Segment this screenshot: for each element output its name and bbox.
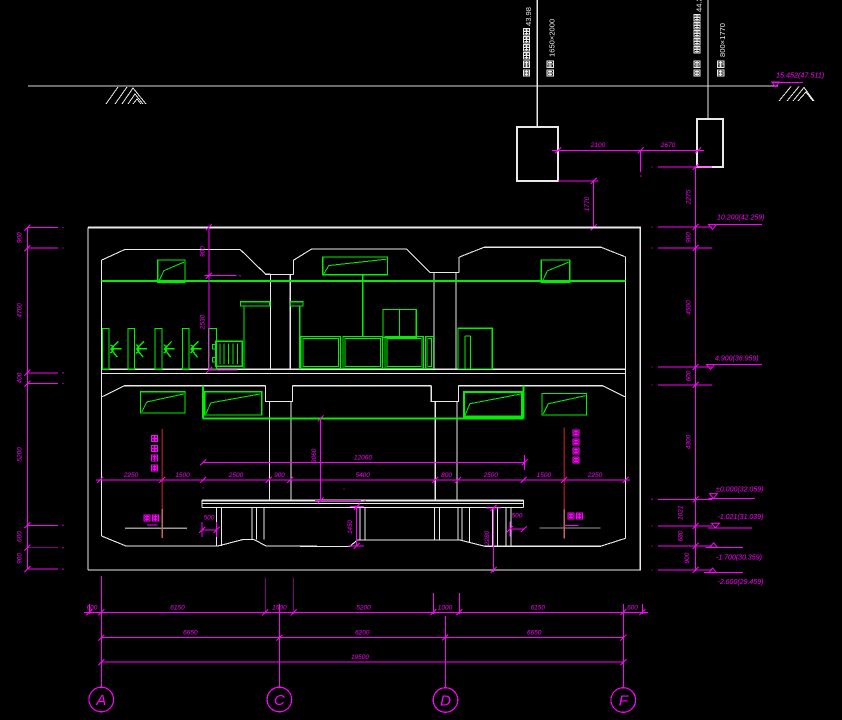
dimension 2280 to invert: [493, 508, 495, 572]
right elevation dimension chain: [695, 167, 697, 571]
svg-text:600: 600: [17, 531, 24, 542]
svg-text:-1.700(30.359): -1.700(30.359): [716, 555, 762, 562]
svg-text:400: 400: [17, 372, 24, 383]
platform sign S1: [141, 392, 186, 413]
upper wall W1a: [270, 274, 272, 370]
svg-text:6150: 6150: [170, 604, 185, 611]
label 口径 1650×2000 (vertical, reads bottom-up): [547, 61, 553, 76]
rail left: [125, 527, 187, 529]
svg-text:500: 500: [512, 513, 523, 520]
elevation flag 10.200(42.259): [712, 224, 762, 226]
svg-text:6650: 6650: [183, 630, 198, 637]
svg-text:4700: 4700: [17, 303, 24, 318]
svg-text:-1.021(31.039): -1.021(31.039): [718, 514, 764, 521]
booth left (green counter): [240, 302, 269, 306]
beam soffit between bay2 and bay3: [430, 272, 459, 274]
upper wall W2a: [433, 273, 435, 370]
svg-text:2250: 2250: [587, 472, 603, 479]
invert profile with track troughs: [102, 536, 626, 547]
ceiling sign U2: [323, 257, 388, 275]
svg-text:A: A: [95, 692, 106, 709]
ground hatch left: [106, 87, 146, 104]
svg-text:3060: 3060: [311, 448, 318, 463]
pipe riser: civil-defence duct: [536, 0, 538, 127]
svg-text:15.452(47.511): 15.452(47.511): [776, 71, 824, 80]
trough depth dimension 1450 at centre column: [356, 507, 358, 546]
grid bubble F: [611, 688, 636, 713]
track centreline label left (vertical): [152, 436, 158, 472]
svg-text:43.98: 43.98: [524, 7, 533, 26]
svg-text:4500: 4500: [686, 300, 693, 315]
svg-text:2500: 2500: [483, 472, 499, 479]
ceiling bay2 haunched soffit: [294, 249, 430, 272]
svg-text:6650: 6650: [527, 630, 542, 637]
platform level ceiling soffit bay1: [102, 386, 266, 397]
elevation flag -1.021(31.039): [708, 527, 752, 529]
manhole box left: [517, 127, 558, 181]
svg-text:2100: 2100: [590, 142, 606, 149]
elevation flag +0.000(32.059): [709, 497, 755, 499]
dimension row 3: [101, 661, 623, 663]
svg-text:2280: 2280: [484, 530, 491, 546]
svg-text:1770: 1770: [584, 196, 591, 211]
platform headroom dimension 3060: [319, 418, 321, 500]
svg-text:4.900(36.959): 4.900(36.959): [715, 356, 759, 363]
svg-text:2275: 2275: [686, 189, 693, 205]
svg-text:5200: 5200: [17, 447, 24, 462]
concourse floor lower line: [102, 372, 626, 374]
platform slab: [202, 500, 524, 502]
svg-text:-2.600(29.459): -2.600(29.459): [718, 579, 764, 586]
svg-text:44.2: 44.2: [694, 0, 703, 12]
platform level dimension chain: [96, 479, 630, 481]
svg-text:F: F: [619, 693, 629, 710]
dimension row 1: [84, 611, 648, 613]
outer wall left: [87, 228, 89, 571]
svg-text:800: 800: [441, 472, 452, 479]
fare gate array: [102, 328, 108, 369]
label 人防 底部高程43.98 (vertical, reads bottom-up): [523, 61, 529, 76]
svg-text:4300: 4300: [686, 434, 693, 449]
ceiling sign U3: [541, 260, 570, 283]
dimension 2100 / 2670 between manholes: [552, 150, 704, 152]
svg-text:6150: 6150: [531, 604, 546, 611]
svg-text:1500: 1500: [537, 472, 552, 479]
svg-text:2670: 2670: [660, 142, 676, 149]
svg-text:600: 600: [686, 370, 693, 381]
platform width dimension 12060: [203, 461, 525, 463]
platform level ceiling soffit bay3: [459, 386, 626, 397]
ground hatch right: [779, 87, 814, 102]
svg-text:900: 900: [274, 472, 285, 479]
svg-text:1500: 1500: [175, 472, 190, 479]
svg-text:10.200(42.259): 10.200(42.259): [717, 215, 764, 222]
ground elevation marker 15.452(47.511): [772, 81, 803, 83]
x-ray machine (hatched box): [216, 341, 243, 366]
manhole box right: [697, 119, 723, 167]
ceiling sign U1: [158, 260, 185, 282]
ceiling bay1 haunched soffit: [102, 250, 271, 274]
svg-text:500: 500: [204, 515, 215, 522]
concourse height dimension (900 / 2530): [208, 227, 210, 370]
inner wall left: [101, 260, 103, 536]
rail right: [539, 527, 600, 529]
elevation flag 4.900(36.959): [710, 364, 762, 366]
dimension 1770 drop to roof: [558, 180, 599, 182]
svg-text:5200: 5200: [356, 604, 371, 611]
display panel above TVM: [383, 310, 416, 338]
svg-text:900: 900: [684, 552, 691, 563]
ceiling bay3 haunched soffit: [459, 247, 625, 257]
grid bubble C: [267, 687, 292, 712]
svg-text:5400: 5400: [355, 472, 370, 479]
concourse ceiling strip (green): [102, 280, 626, 282]
dimension row 2: [101, 637, 623, 639]
svg-text:2250: 2250: [123, 472, 139, 479]
label 口径 800×1770 (vertical, reads bottom-up): [718, 61, 724, 76]
svg-text:2500: 2500: [228, 472, 244, 479]
svg-text:1650×2000: 1650×2000: [548, 19, 557, 57]
ground surface line: [28, 85, 778, 87]
beam drop over platform opening W2: [431, 386, 458, 402]
platform wall W1b: [290, 402, 292, 501]
upper wall W1b: [289, 275, 291, 370]
platform sign S4: [542, 394, 587, 415]
svg-text:800×1770: 800×1770: [718, 23, 727, 57]
track centreline label right (vertical): [573, 430, 579, 463]
svg-text:1021: 1021: [678, 505, 685, 520]
elevation flag -1.700(30.359): [706, 546, 743, 548]
track centreline left: [161, 429, 163, 509]
concourse floor top line: [102, 368, 626, 370]
svg-text:C: C: [274, 692, 285, 709]
svg-text:1450: 1450: [347, 520, 354, 534]
columns under platform slab: [216, 507, 218, 546]
svg-text:1000: 1000: [438, 604, 453, 611]
svg-text:900: 900: [686, 232, 693, 243]
svg-text:D: D: [440, 693, 451, 710]
ticket vending machines: [301, 336, 340, 368]
grid bubble D: [433, 688, 458, 713]
platform sign S3: [464, 392, 523, 417]
svg-text:±0.000(32.059): ±0.000(32.059): [716, 487, 763, 494]
beam drop over platform opening W1: [266, 386, 293, 402]
drop rod from sign U2: [362, 275, 364, 337]
svg-text:900: 900: [17, 232, 24, 243]
svg-text:6200: 6200: [355, 630, 370, 637]
inner wall right: [625, 257, 627, 539]
svg-text:600: 600: [627, 604, 638, 611]
station outer roof line: [88, 227, 641, 229]
rail level label right: [568, 513, 583, 519]
svg-text:900: 900: [17, 553, 24, 564]
left dimension chain: [26, 228, 28, 570]
platform ceiling strip (green): [203, 417, 524, 419]
svg-text:12060: 12060: [354, 454, 372, 461]
upper wall W2b: [455, 273, 457, 370]
svg-text:1500: 1500: [272, 604, 287, 611]
platform wall W1a: [269, 402, 271, 501]
label 污水 管内底高程44.2 (vertical, reads bottom-up): [694, 61, 700, 76]
equipment cabinet right bay: [458, 328, 492, 369]
booth right (green counter): [291, 302, 303, 306]
dimension 500 right: [510, 528, 524, 530]
pipe riser: sewage: [707, 0, 709, 119]
svg-text:680: 680: [678, 530, 685, 541]
elevation flag -2.600(29.459): [704, 572, 743, 574]
grid extension lines: [100, 576, 102, 687]
svg-text:19500: 19500: [351, 654, 369, 661]
svg-text:2530: 2530: [200, 314, 207, 330]
track centreline right: [563, 427, 565, 509]
svg-text:600: 600: [87, 604, 98, 611]
platform wall W2a: [434, 402, 436, 501]
grid bubble A: [89, 687, 114, 712]
rail level label left: [144, 515, 159, 521]
svg-text:900: 900: [200, 246, 207, 257]
platform sign S2: [205, 392, 262, 415]
outer wall right: [639, 228, 641, 571]
platform wall W2b: [456, 402, 458, 501]
outer base slab line: [88, 569, 641, 571]
beam soffit between bay1 and bay2: [265, 274, 293, 276]
platform level ceiling soffit bay2: [293, 385, 432, 387]
dimension 500 left: [202, 529, 217, 531]
